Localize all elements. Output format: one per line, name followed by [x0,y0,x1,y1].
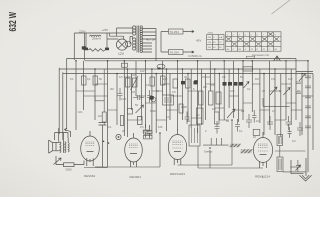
wire h [263,98,290,106]
resistor tall left [120,116,123,126]
capacitor C12 [234,82,238,86]
capacitor C-mains [82,46,86,49]
svg-text:12V: 12V [118,52,125,56]
capacitor C-ant [296,160,300,172]
output transformer T2 [60,142,69,153]
wire vertical x104 [103,69,105,125]
resistor R3 [126,78,131,87]
resistor R8 [186,79,191,88]
wires lamp [74,28,133,40]
resistor R12 [215,112,220,124]
svg-text:0,1: 0,1 [239,129,243,133]
svg-text:0,5: 0,5 [271,77,275,81]
terminal circle [151,97,156,102]
voltage table right block [226,32,282,51]
svg-text:100: 100 [163,77,168,81]
table cell text [208,33,278,52]
coil box right2 [277,157,283,172]
antenna wire [275,146,306,172]
capacitor row mid-bottom [215,121,220,134]
svg-text:0,5: 0,5 [140,125,144,129]
resistor R13 [197,108,204,124]
svg-text:+25V: +25V [102,28,109,32]
resistor R1 [82,76,87,85]
resistor R9 [199,91,204,105]
svg-text:0,1: 0,1 [241,109,245,113]
ground right [291,158,312,181]
wires into transformer primary [117,28,133,45]
volume pot arrow [54,158,62,165]
svg-text:RENS1204: RENS1204 [170,172,185,176]
secondary winding [140,26,142,53]
svg-text:0,3: 0,3 [272,109,276,113]
svg-text:TA 254: TA 254 [170,50,180,54]
tube V3 RENS1204 [168,135,186,160]
output arrow TA1 [169,29,184,34]
svg-text:10V: 10V [140,69,145,73]
resistor near IF [179,104,183,113]
resistor R6 [161,76,166,85]
variable arrow over R [131,76,139,90]
resistor R7 [173,79,178,88]
value labels scatter [70,69,300,179]
main bus A [67,58,297,60]
stub [95,96,104,101]
bus resistor box [243,67,253,71]
svg-text:0,5: 0,5 [172,90,176,94]
resistor R11 [216,92,221,104]
junction jack [116,134,121,139]
connector stubs [76,77,313,120]
tube V1 RES964 [81,136,100,161]
resistor R4 [133,78,138,87]
svg-text:200Ω: 200Ω [208,33,214,35]
capacitor C15 [194,81,198,84]
bottom horizontal wires [84,120,232,168]
capacitor C11 [228,82,232,86]
svg-text:0,2: 0,2 [292,139,296,143]
box bottom [253,129,260,135]
mains switch oval [157,64,165,68]
svg-text:2000: 2000 [181,105,187,109]
variable arrows [227,109,235,118]
resistor R2 [93,76,98,85]
capacitor C10 [223,82,227,86]
table X marks [226,32,278,46]
svg-text:250mA: 250mA [92,37,101,41]
svg-text:1M: 1M [255,77,259,81]
resistor R10 [209,91,214,105]
resistor R5 [150,77,155,86]
svg-text:mA: mA [219,36,223,39]
svg-text:100: 100 [288,77,293,81]
capacitor C14 [181,81,185,84]
svg-text:40V 2A: 40V 2A [146,38,155,42]
feedback arrow [65,129,71,138]
svg-text:1M: 1M [131,90,135,94]
svg-text:0,25: 0,25 [121,97,127,101]
svg-text:632 W: 632 W [8,12,19,32]
svg-text:5000: 5000 [150,109,156,113]
svg-text:0,1: 0,1 [70,77,74,81]
tube V4 RENS1214 [253,138,272,163]
antenna trimmer arrow [296,165,301,171]
svg-text:0,1: 0,1 [108,125,112,129]
svg-text:2M: 2M [203,85,207,89]
svg-text:0,5: 0,5 [119,75,123,79]
transformer taps [143,29,157,62]
svg-text:RES964: RES964 [84,174,96,178]
svg-text:0,1: 0,1 [146,83,150,87]
primary winding [133,26,136,35]
grid network boxes [144,131,153,135]
svg-text:100: 100 [158,125,163,129]
capacitor near IF [185,112,190,125]
bus cap label [247,56,255,58]
svg-text:5000: 5000 [66,168,73,172]
capacitor dark blob C-m1 [150,96,154,100]
svg-text:0,2: 0,2 [196,113,200,117]
resistor on bus [122,63,128,67]
capacitor C3 [105,48,109,51]
svg-text:1000: 1000 [290,165,296,169]
svg-text:0,1: 0,1 [87,77,91,81]
capacitor C13 [239,82,243,86]
svg-text:10V: 10V [131,73,136,77]
vertical drops top [76,61,313,172]
scan scratch [272,0,291,14]
IF transformer box1 [163,95,174,105]
svg-text:Drehko: Drehko [204,150,213,154]
wire bottom left [56,156,84,165]
svg-text:0,1: 0,1 [187,119,191,123]
svg-text:Ci=5000 cm: Ci=5000 cm [188,54,202,58]
coil box right1 [277,135,283,146]
voltage table left block [207,32,281,51]
svg-text:1M: 1M [212,107,216,111]
svg-text:0,1: 0,1 [247,87,251,91]
dial lamp 12V [116,39,127,50]
resistor R-drop zigzag [88,49,105,52]
grid cap C-top [95,118,107,167]
capacitor C-a2 [288,127,292,138]
svg-text:REN904: REN904 [130,175,142,179]
svg-text:100: 100 [230,89,235,93]
power transformer T1 [137,26,139,53]
svg-text:45V: 45V [196,39,201,43]
speaker LS [49,140,56,153]
svg-text:0,1: 0,1 [166,115,170,119]
wire to gang [203,138,229,145]
tuning gang link [229,144,242,147]
svg-text:0,1: 0,1 [211,83,215,87]
main bus C [59,59,313,72]
capacitor vertical plates [133,95,144,100]
resistor box mid [127,109,132,115]
left verticals [59,59,66,141]
output arrow TA2 [169,50,184,55]
capacitor C-g2 [118,88,123,101]
capacitor C2 [84,48,88,51]
middle dense components [82,56,307,172]
capacitor blob bus [194,80,198,83]
svg-text:10n: 10n [78,110,83,114]
caps small pairs [143,124,149,138]
trimmer ticks right column [296,76,311,128]
mains input box [74,33,84,60]
antenna terminal [274,56,281,61]
svg-text:2M: 2M [110,87,114,91]
svg-text:10n: 10n [98,114,103,118]
main bus B [85,60,309,62]
coupling parts left of tube3 [138,117,143,125]
fuse coil L1 [90,35,102,36]
svg-text:0,2: 0,2 [222,75,226,79]
main bus D [63,73,313,75]
resistor vertical x104 [102,112,106,122]
tube V2 REN904 [125,138,143,162]
resistor R-vol [64,163,75,167]
svg-text:TA 254: TA 254 [170,30,180,34]
IF transformer box2 [189,125,200,146]
capacitor with 5 [252,110,257,123]
